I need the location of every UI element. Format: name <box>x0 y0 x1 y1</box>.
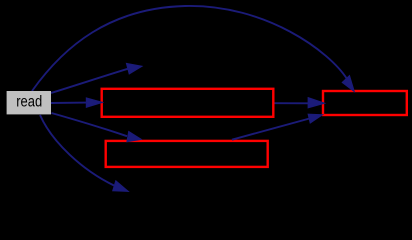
wire box2->right-box <box>232 119 310 140</box>
wire read->box2 <box>52 113 128 136</box>
node box2 (red) <box>106 141 268 167</box>
svg-text:read: read <box>16 94 42 111</box>
wire read->nodeA (invisible node upper) <box>51 69 128 93</box>
node read (gray, current) <box>7 91 51 114</box>
arrowhead read->box2 <box>127 131 141 141</box>
arrowhead read->nodeB <box>113 181 129 192</box>
arrowhead on top curve <box>342 76 354 92</box>
arrowhead box2->right-box <box>308 114 323 123</box>
arrowhead read->nodeA <box>126 63 142 74</box>
arrowhead box1->right-box <box>308 98 325 108</box>
node box1 (red) <box>102 89 274 117</box>
wire box1->right-box <box>275 102 310 104</box>
wire read->box1 <box>51 102 87 104</box>
wire read->right-box top curve <box>32 6 347 91</box>
arrowhead read->box1 <box>86 98 102 107</box>
node right-box (red) <box>323 91 407 115</box>
wire read->nodeB (invisible node lower) <box>40 115 114 186</box>
